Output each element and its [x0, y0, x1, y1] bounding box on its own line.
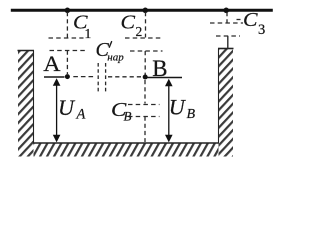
shield: right wall (hatched)	[218, 49, 234, 157]
shield: left wall (hatched)	[18, 51, 35, 157]
label C2	[121, 11, 143, 39]
node A (plate bar, junction dot, label)	[43, 51, 70, 79]
node: bus tap for C1	[65, 8, 71, 14]
capacitor CB (node B to shield floor, dashed)	[128, 80, 160, 142]
label CB	[111, 99, 132, 124]
wire A to B (dashed)	[73, 76, 142, 78]
shield: floor (hatched)	[33, 143, 219, 157]
node: bus tap for C3	[223, 8, 229, 14]
svg-text:B: B	[187, 107, 196, 122]
voltage arrow UB (double-headed, B down to floor)	[165, 79, 173, 143]
svg-text:C: C	[121, 11, 136, 33]
label C'nar	[96, 39, 125, 63]
label C1	[73, 11, 91, 41]
svg-text:U: U	[58, 95, 76, 120]
wire: overhead bus conductor	[11, 9, 273, 12]
label UB	[169, 95, 196, 123]
svg-text:1: 1	[85, 26, 92, 41]
svg-text:U: U	[169, 95, 187, 120]
voltage arrow UA (double-headed, A down to floor)	[53, 78, 61, 142]
node: bus tap for C2	[143, 8, 149, 14]
capacitor C1 (bus to node A, dashed)	[49, 12, 86, 74]
capacitor C'nar (in wire A-B, dashed vertical plates)	[98, 63, 105, 93]
label C3	[243, 9, 265, 38]
label UA	[58, 95, 86, 123]
svg-text:2: 2	[136, 24, 143, 39]
svg-text:B: B	[152, 56, 167, 81]
node B (plate bar, junction dot, label)	[143, 56, 182, 81]
svg-text:A: A	[43, 51, 60, 76]
svg-text:A: A	[76, 107, 86, 123]
capacitor C3 (bus to shield wall, dashed)	[210, 12, 243, 49]
svg-text:C: C	[243, 9, 258, 31]
svg-text:3: 3	[258, 22, 265, 38]
capacitor C2 (bus to node B, dashed)	[125, 12, 163, 75]
svg-text:B: B	[124, 109, 132, 124]
svg-text:нар: нар	[107, 51, 124, 63]
